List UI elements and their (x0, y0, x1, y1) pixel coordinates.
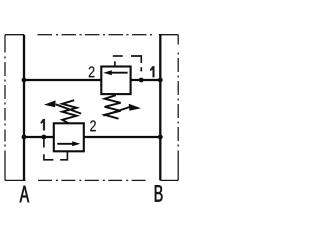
valve V2 flow arrow (points left) (103, 70, 127, 75)
line B (vertical gallery) (159, 35, 161, 181)
valve V2 pilot line (dashed, from top of body to port 1) (113, 56, 142, 71)
port label B (155, 185, 163, 201)
wire lower horizontal right (valve V1 port 2 to B) (84, 136, 161, 138)
valve V2 spring (below body) (105, 95, 121, 119)
valve V1 flow arrow (points right) (57, 141, 80, 146)
valve V1 spring (above body) (62, 100, 76, 123)
enclosure boundary top (dash-dot) (5, 34, 178, 36)
junction A-upper (22, 78, 27, 83)
port label 2 (valve V1 outlet) (90, 120, 96, 131)
valve V2 body (upper pressure reducing valve) (101, 67, 130, 95)
junction B-lower (158, 135, 163, 140)
junction pilot V1 at port 1 (42, 135, 47, 140)
junction A-lower (22, 135, 27, 140)
valve V1 body (lower pressure reducing valve) (54, 123, 84, 151)
wire lower horizontal left (A to valve V1 port 1) (24, 136, 54, 138)
valve V2 adjustment arrow (through spring, points right-down) (103, 104, 141, 116)
line A (vertical gallery) (23, 35, 25, 181)
junction pilot V2 at port 1 (139, 78, 144, 83)
enclosure boundary bottom (dash-dot) (5, 179, 178, 181)
valve V1 pilot line (dashed, from bottom of body to port 1) (44, 139, 68, 160)
port label A (20, 186, 29, 202)
port label 2 (valve V2 inlet) (89, 66, 95, 77)
wire upper horizontal right (valve V2 port 1 to B) (131, 79, 161, 81)
port label 1 (valve V1 inlet) (40, 119, 45, 130)
junction B-upper (158, 78, 163, 83)
wire upper horizontal left (A to valve V2 port 2) (24, 79, 101, 81)
port label 1 (valve V2 outlet) (150, 66, 155, 77)
valve V1 adjustment arrow (through spring, points left-up) (44, 100, 81, 113)
enclosure boundary left (dash-dot) (4, 35, 6, 181)
enclosure boundary right (dash-dot) (177, 35, 179, 181)
